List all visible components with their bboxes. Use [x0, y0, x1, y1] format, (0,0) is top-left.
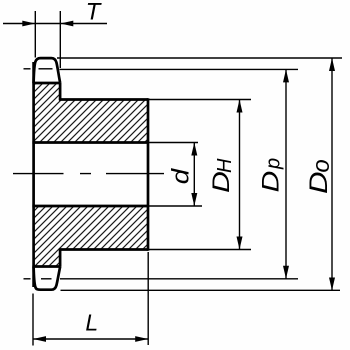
extension line d bottom: [148, 205, 202, 207]
dimension line DO: [331, 58, 333, 291]
DO arrow down: [329, 278, 335, 291]
Dp arrow down: [283, 266, 289, 279]
DH arrow up: [237, 100, 243, 113]
svg-text:H: H: [214, 158, 236, 173]
extension line d top: [148, 142, 198, 144]
bottom tooth pitch dash left: [24, 278, 31, 280]
dimension line d: [193, 143, 195, 207]
dimension line Dp: [285, 69, 287, 278]
hub bottom edge: [59, 248, 148, 251]
svg-text:D: D: [304, 171, 332, 194]
top tooth base line: [32, 82, 60, 85]
hub top edge: [59, 98, 148, 101]
d arrow down: [191, 193, 197, 206]
L extension line left: [32, 294, 34, 346]
svg-text:T: T: [86, 0, 103, 26]
DH arrow down: [237, 237, 243, 250]
svg-text:D: D: [257, 171, 284, 193]
dimension line DH: [239, 100, 241, 250]
top tooth pitch dash left: [24, 68, 31, 70]
T arrow right: [60, 21, 73, 27]
bore top edge: [32, 141, 148, 144]
extension line DO bottom: [61, 289, 341, 291]
bore bottom edge: [32, 205, 148, 208]
extension line Dp bottom: [60, 278, 298, 280]
DO arrow up: [329, 58, 335, 71]
step edge lower: [59, 250, 62, 267]
svg-text:L: L: [85, 310, 98, 336]
extension line DH top: [148, 99, 251, 101]
bottom tooth outline: [34, 267, 61, 290]
extension line DH bottom: [148, 249, 251, 251]
extension line Dp top: [60, 68, 299, 70]
hatched section area upper (plate + hub): [33, 83, 148, 143]
T arrow left: [22, 21, 35, 27]
svg-text:D: D: [207, 171, 234, 193]
bottom tooth base line: [32, 265, 60, 268]
hub right face: [147, 98, 150, 250]
svg-text:d: d: [168, 167, 194, 184]
T extension line right: [59, 11, 61, 68]
L arrow right: [135, 336, 148, 342]
bottom tooth pitch dash inner: [41, 278, 52, 280]
L arrow left: [33, 336, 46, 342]
svg-text:p: p: [263, 158, 285, 170]
horizontal centerline (dash-dot): [13, 173, 164, 175]
extension line DO top: [57, 57, 342, 59]
top tooth pitch dash inner: [39, 68, 53, 70]
T dimension line: [3, 23, 107, 25]
T extension line left: [34, 11, 36, 58]
L extension line right: [147, 252, 149, 345]
Dp arrow up: [283, 69, 289, 82]
L dimension line: [33, 338, 148, 340]
svg-text:o: o: [308, 159, 335, 172]
top tooth outline: [34, 58, 61, 83]
hatched section area lower (plate + hub): [33, 206, 148, 267]
step edge upper: [59, 83, 62, 100]
sprocket body outline: left face: [32, 62, 35, 287]
d arrow up: [191, 143, 197, 156]
